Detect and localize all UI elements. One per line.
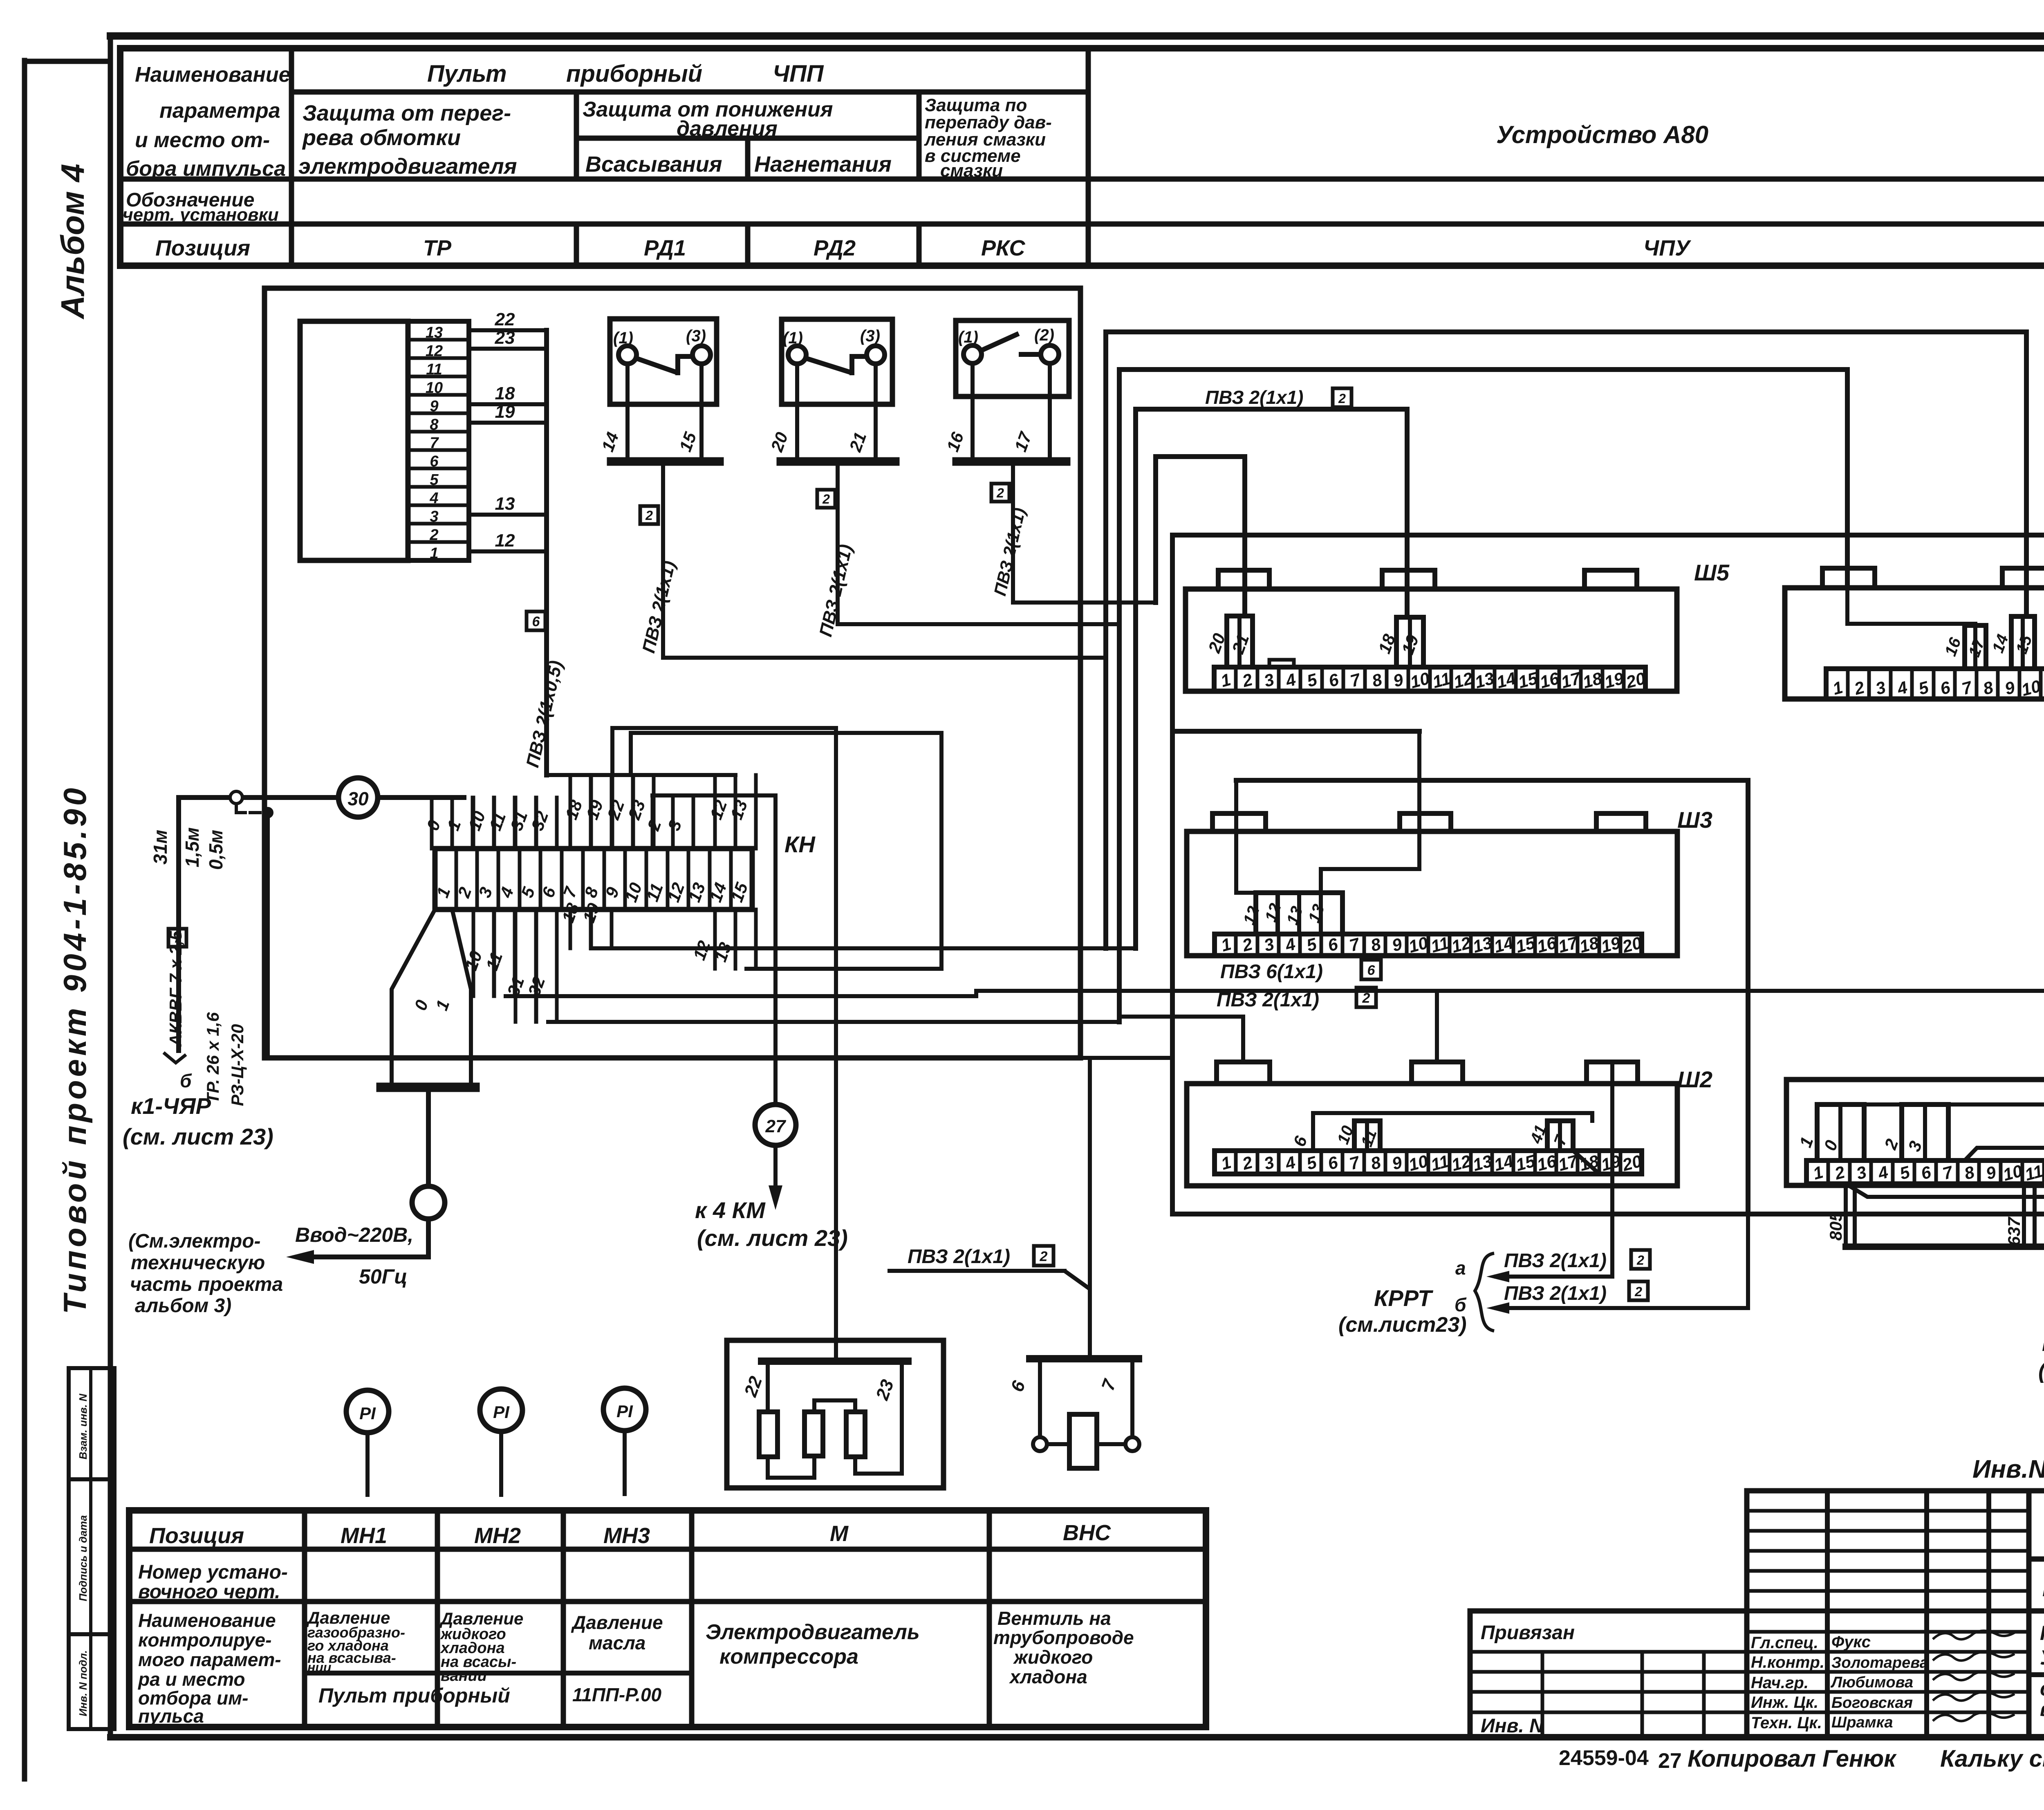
svg-text:16: 16 xyxy=(1941,635,1965,659)
manometer МН3 (PI) xyxy=(603,1388,646,1494)
svg-text:Инв. N: Инв. N xyxy=(1481,1715,1544,1737)
motor М windings box xyxy=(727,1340,944,1488)
rotated cable spec АКВВГ 7х2,5 [7] xyxy=(166,929,186,1047)
terminal strip Ш2 xyxy=(1187,1062,1677,1186)
svg-text:ПВЗ 2(1х1): ПВЗ 2(1х1) xyxy=(908,1246,1010,1268)
svg-text:Компрессорная станция 5КЦ-160А: Компрессорная станция 5КЦ-160АО xyxy=(2042,1575,2044,1601)
Ш1 floor bar xyxy=(1846,1243,2044,1250)
svg-text:2: 2 xyxy=(996,486,1004,500)
svg-text:Ввод~220В,: Ввод~220В, xyxy=(295,1223,413,1246)
svg-text:Компрессорная станция.: Компрессорная станция. xyxy=(2040,1622,2044,1644)
svg-text:6: 6 xyxy=(1326,1152,1340,1174)
left margin label: Типовой проект 904-1-85.90 xyxy=(57,785,93,1314)
svg-text:13: 13 xyxy=(1283,904,1307,927)
terminal strip Ш4 xyxy=(1785,568,2044,700)
svg-text:(см. лист 23): (см. лист 23) xyxy=(123,1124,273,1149)
svg-text:6: 6 xyxy=(1289,1133,1311,1149)
svg-text:6: 6 xyxy=(1007,1378,1029,1394)
svg-text:Инв. N подл.: Инв. N подл. xyxy=(77,1650,89,1716)
svg-text:7: 7 xyxy=(1960,677,1975,699)
Ш4 inner terminals 14/15 xyxy=(1989,588,2036,669)
svg-text:9: 9 xyxy=(2003,677,2017,699)
svg-text:10: 10 xyxy=(1407,1151,1430,1174)
svg-text:рева обмотки: рева обмотки xyxy=(302,125,461,150)
wire run y812 to Ш4 xyxy=(1106,332,2026,948)
РКС run right xyxy=(1013,600,1156,605)
svg-text:Альбом 4: Альбом 4 xyxy=(54,164,91,320)
svg-text:6: 6 xyxy=(1938,677,1952,699)
text (см. лист 20) труба 26х1.6 1,5м xyxy=(2038,1357,2044,1383)
svg-text:Гл.спец.: Гл.спец. xyxy=(1751,1634,1818,1652)
svg-text:16: 16 xyxy=(943,430,967,455)
svg-text:давления: давления xyxy=(677,117,778,141)
svg-text:637: 637 xyxy=(2004,1216,2024,1246)
svg-text:7: 7 xyxy=(1347,934,1362,955)
svg-text:2: 2 xyxy=(1240,934,1255,955)
Ш3 inner terminals 12 12 13 13 xyxy=(1240,893,1342,934)
svg-text:10: 10 xyxy=(1408,668,1432,692)
svg-text:бора импульса: бора импульса xyxy=(126,157,286,181)
svg-text:3: 3 xyxy=(1874,677,1888,698)
svg-text:6: 6 xyxy=(1327,670,1341,691)
stub columns above КН xyxy=(423,775,756,849)
svg-text:22: 22 xyxy=(740,1373,766,1400)
wire run y1117 to Ш5 xyxy=(1156,457,1245,616)
terminal strip Ш1 xyxy=(1786,1058,2044,1185)
svg-text:1: 1 xyxy=(1831,677,1845,698)
svg-text:31м: 31м xyxy=(150,830,171,865)
stub columns below КН xyxy=(461,901,756,1022)
horizontal bus from left strip cable xyxy=(547,773,735,777)
svg-text:1: 1 xyxy=(1795,1134,1817,1150)
svg-text:трубопроводе: трубопроводе xyxy=(993,1627,1134,1648)
bottom table xyxy=(129,1510,1206,1727)
svg-text:Ш3: Ш3 xyxy=(1677,807,1712,833)
svg-text:6: 6 xyxy=(1326,934,1340,955)
svg-text:Инв.N: Инв.N xyxy=(1972,1455,2044,1483)
svg-text:Устройство А80: Устройство А80 xyxy=(1496,121,1708,148)
svg-text:6: 6 xyxy=(532,614,540,629)
РД1/РД2 run to 12/13 xyxy=(663,656,1106,660)
Ш1 inner terminals 2/3 xyxy=(1880,1104,1948,1160)
svg-text:РЗ-Ц-Х-20: РЗ-Ц-Х-20 xyxy=(228,1024,247,1106)
svg-text:12: 12 xyxy=(706,797,731,822)
svg-text:12: 12 xyxy=(689,938,714,963)
title block right part xyxy=(2029,1512,2044,1738)
svg-text:Электродвигатель: Электродвигатель xyxy=(706,1620,920,1644)
svg-text:27: 27 xyxy=(765,1116,787,1136)
manometer МН2 (PI) xyxy=(480,1389,522,1495)
svg-text:МН2: МН2 xyxy=(474,1523,521,1548)
cable label ПВЗ 6(1х1) [6] xyxy=(1220,960,1381,983)
wire run y904 to Ш4 xyxy=(1119,370,1847,1022)
svg-text:ПВЗ 2(1х1): ПВЗ 2(1х1) xyxy=(639,559,679,655)
svg-text:Давление: Давление xyxy=(439,1609,523,1628)
svg-text:4: 4 xyxy=(1283,1152,1298,1174)
text Ввод~220В 50Гц xyxy=(295,1223,413,1288)
svg-text:23: 23 xyxy=(872,1377,898,1403)
svg-text:Пульт: Пульт xyxy=(427,60,507,87)
svg-text:ТР. 26 х 1,6: ТР. 26 х 1,6 xyxy=(203,1012,222,1104)
Ш5 small bump on cell row xyxy=(1269,660,1294,667)
svg-text:9: 9 xyxy=(1390,934,1404,955)
svg-text:0: 0 xyxy=(410,997,432,1013)
text Инв.N above title block xyxy=(1972,1455,2044,1483)
svg-text:Вщит 2 (3,4): Вщит 2 (3,4) xyxy=(2042,1331,2044,1356)
svg-text:PI: PI xyxy=(616,1402,633,1421)
svg-text:Шрамка: Шрамка xyxy=(1831,1714,1893,1731)
svg-text:(1): (1) xyxy=(958,328,978,346)
bracket and б xyxy=(164,1053,192,1091)
svg-text:ПВЗ 2(1х1): ПВЗ 2(1х1) xyxy=(1504,1250,1607,1272)
wire: left vertical to long middle bus xyxy=(176,797,181,1051)
wire loop y1309 around right side xyxy=(1172,535,2044,1214)
svg-text:вочного черт.: вочного черт. xyxy=(138,1581,280,1603)
Ш4 wire to terminals 16/17 xyxy=(1847,588,1975,624)
Ш2 inner terminals 10/11 xyxy=(1334,1121,1381,1151)
svg-text:3: 3 xyxy=(1854,1162,1869,1183)
svg-text:PI: PI xyxy=(493,1402,510,1422)
enclosure box ЧПП xyxy=(264,288,1080,1058)
svg-text:13: 13 xyxy=(1473,668,1496,692)
bottom table texts xyxy=(137,1521,1134,1727)
svg-text:15: 15 xyxy=(675,430,700,455)
svg-text:2: 2 xyxy=(1338,391,1346,406)
svg-text:3: 3 xyxy=(1904,1138,1925,1154)
svg-text:11: 11 xyxy=(1429,933,1451,957)
svg-text:0,5м: 0,5м xyxy=(205,830,226,870)
Ш1 drop wires 637 xyxy=(2004,1184,2035,1247)
wires from strip to bus ПВЗ 2(1х0,5) xyxy=(469,309,547,775)
terminal strip Ш3 xyxy=(1187,813,1677,957)
Ш2 inner wiring xyxy=(1289,1113,1592,1151)
svg-text:22: 22 xyxy=(603,797,628,822)
svg-text:31: 31 xyxy=(507,809,531,833)
svg-text:4: 4 xyxy=(1283,670,1298,691)
svg-text:КРРТ: КРРТ xyxy=(1374,1285,1434,1311)
svg-text:Наименование: Наименование xyxy=(138,1610,276,1631)
label ПВЗ 2(1х1) [2] for ВНС xyxy=(890,1246,1089,1288)
svg-text:13: 13 xyxy=(495,494,515,514)
svg-text:(см. лист 23): (см. лист 23) xyxy=(697,1225,848,1251)
svg-text:21: 21 xyxy=(845,430,870,455)
svg-text:12: 12 xyxy=(1262,901,1285,924)
svg-text:Нач.гр.: Нач.гр. xyxy=(1751,1674,1809,1692)
svg-text:техническую: техническую xyxy=(131,1252,265,1274)
left margin stamp cells xyxy=(69,1368,114,1729)
svg-text:5: 5 xyxy=(1304,1152,1319,1174)
svg-text:20: 20 xyxy=(767,430,791,455)
КН funnel to supply bar xyxy=(381,909,475,1087)
svg-text:жидкого: жидкого xyxy=(1013,1646,1093,1668)
svg-text:2: 2 xyxy=(1634,1284,1642,1299)
svg-text:8: 8 xyxy=(1369,1152,1383,1174)
svg-text:схема соединений: схема соединений xyxy=(2040,1677,2044,1700)
svg-text:2: 2 xyxy=(1362,990,1370,1006)
КРРТ lines a/б xyxy=(1486,1214,1748,1314)
svg-text:22: 22 xyxy=(495,309,515,329)
svg-text:11: 11 xyxy=(2023,1161,2044,1185)
svg-text:(См.электро-: (См.электро- xyxy=(128,1230,261,1252)
svg-text:6: 6 xyxy=(1367,963,1376,978)
svg-text:2: 2 xyxy=(1880,1136,1902,1152)
cable label ПВЗ 2(1х1) [2] xyxy=(1217,988,1376,1011)
svg-text:27: 27 xyxy=(1658,1749,1682,1773)
svg-text:Фукс: Фукс xyxy=(1831,1633,1871,1651)
svg-text:приборный: приборный xyxy=(566,60,702,87)
terminal strip (13 cells) xyxy=(300,321,469,562)
svg-text:17: 17 xyxy=(1011,429,1035,455)
svg-text:Нагнетания: Нагнетания xyxy=(754,152,892,177)
label Ш3 xyxy=(1677,807,1712,833)
svg-text:(2): (2) xyxy=(1034,326,1054,344)
svg-text:Взам. инв. N: Взам. инв. N xyxy=(77,1393,89,1459)
svg-text:1,5м: 1,5м xyxy=(182,827,203,867)
svg-text:1: 1 xyxy=(1219,934,1233,955)
svg-text:Установка осушки N1: Установка осушки N1 xyxy=(2040,1646,2044,1669)
svg-text:Копировал Генюк: Копировал Генюк xyxy=(1688,1745,1897,1772)
svg-text:3: 3 xyxy=(1262,670,1276,690)
svg-text:9: 9 xyxy=(1984,1162,1998,1183)
svg-text:1: 1 xyxy=(1219,1152,1233,1173)
svg-text:PI: PI xyxy=(359,1404,376,1423)
svg-text:8: 8 xyxy=(1370,670,1384,691)
svg-text:4: 4 xyxy=(1895,677,1910,699)
wire run y1001 to Ш5 xyxy=(1136,409,1407,948)
svg-text:1: 1 xyxy=(1219,670,1233,690)
svg-text:7: 7 xyxy=(1347,1152,1362,1174)
svg-text:2: 2 xyxy=(1852,677,1867,699)
КРРТ labels xyxy=(1338,1250,1650,1337)
svg-text:Любимова: Любимова xyxy=(1830,1674,1913,1691)
svg-text:М: М xyxy=(830,1521,849,1546)
svg-text:МН1: МН1 xyxy=(341,1523,387,1548)
svg-text:Вентиль на: Вентиль на xyxy=(997,1608,1111,1629)
bottom margin texts xyxy=(1559,1745,2044,1773)
svg-text:1: 1 xyxy=(432,997,453,1013)
wire band below КН xyxy=(506,948,2044,1062)
svg-text:6: 6 xyxy=(1919,1162,1933,1183)
dash-dot link with junction dot xyxy=(236,804,272,817)
svg-text:вании: вании xyxy=(441,1667,487,1685)
svg-text:(3): (3) xyxy=(860,327,880,345)
svg-text:Ш2: Ш2 xyxy=(1677,1066,1712,1092)
svg-text:электродвигателя: электродвигателя xyxy=(298,154,517,179)
svg-text:8: 8 xyxy=(1962,1162,1977,1183)
svg-text:(см. лист 20): (см. лист 20) xyxy=(2038,1359,2044,1383)
svg-text:Давление: Давление xyxy=(571,1612,663,1633)
label КН xyxy=(784,831,816,857)
text Вщит 2 (3,4) КВВГ 7х1 [5] 29м xyxy=(2042,1331,2044,1362)
header table texts xyxy=(123,60,1708,260)
svg-text:хладона: хладона xyxy=(1009,1666,1087,1687)
svg-text:ПВЗ 2(1х1): ПВЗ 2(1х1) xyxy=(1504,1283,1607,1304)
Ш1 inner long rail xyxy=(1817,1102,2044,1107)
wire 12/13 over-route xyxy=(631,733,941,969)
svg-text:Н.контр.: Н.контр. xyxy=(1751,1653,1824,1671)
terminal strip Ш5 xyxy=(1186,570,1677,692)
Ш1 cable loom lower xyxy=(1846,1184,2044,1197)
wire: power feed down from junction xyxy=(266,813,270,1058)
svg-text:нии: нии xyxy=(307,1660,331,1675)
wire РД1 down, label ПВЗ 2(1х1) [2] xyxy=(639,461,679,658)
label Ш2 xyxy=(1677,1066,1712,1092)
svg-text:РД1: РД1 xyxy=(644,236,686,260)
rotated cable spec ТР.26х1,6 xyxy=(203,1012,222,1104)
svg-text:МН3: МН3 xyxy=(603,1523,650,1548)
svg-text:(см.лист23): (см.лист23) xyxy=(1338,1313,1467,1337)
Ш1 cable loom upper xyxy=(1965,1148,2044,1160)
svg-text:805: 805 xyxy=(1826,1212,1845,1241)
Ш3 staircase wires xyxy=(1172,731,1419,934)
svg-text:Пульт приборный: Пульт приборный xyxy=(318,1684,510,1707)
svg-text:3: 3 xyxy=(1262,934,1276,955)
svg-text:ЧПП: ЧПП xyxy=(773,60,824,87)
wire РД2 down, label ПВЗ 2(1х1) [2] xyxy=(816,461,1119,638)
svg-text:19: 19 xyxy=(582,797,607,822)
svg-text:Ш5: Ш5 xyxy=(1694,560,1730,585)
svg-text:2: 2 xyxy=(1240,670,1255,691)
svg-text:к 4 КМ: к 4 КМ xyxy=(695,1197,766,1223)
svg-text:2: 2 xyxy=(645,508,653,523)
svg-text:Позиция: Позиция xyxy=(155,236,250,260)
svg-text:9: 9 xyxy=(1391,670,1405,691)
svg-text:13: 13 xyxy=(1305,902,1328,925)
wire to motor М xyxy=(612,728,836,1361)
svg-text:32: 32 xyxy=(527,809,552,833)
svg-text:ПВЗ 2(1х1): ПВЗ 2(1х1) xyxy=(1205,387,1303,408)
header table xyxy=(120,48,2044,266)
pressure-difference switch contact РКС xyxy=(943,320,1069,461)
title block texts xyxy=(1481,1622,2015,1737)
svg-text:внешних проводок.: внешних проводок. xyxy=(2040,1698,2044,1720)
svg-text:24559-04: 24559-04 xyxy=(1559,1746,1649,1770)
svg-text:ПВЗ 2(1х1): ПВЗ 2(1х1) xyxy=(1217,989,1319,1011)
svg-text:мого парамет-: мого парамет- xyxy=(138,1649,281,1670)
svg-text:Номер устано-: Номер устано- xyxy=(138,1561,288,1583)
svg-text:21: 21 xyxy=(1228,632,1253,656)
svg-text:1: 1 xyxy=(1811,1162,1825,1183)
svg-text:1: 1 xyxy=(430,545,438,562)
svg-text:19: 19 xyxy=(495,402,515,422)
manometer МН1 (PI) xyxy=(346,1390,389,1495)
svg-text:12: 12 xyxy=(495,531,515,551)
svg-text:контролируе-: контролируе- xyxy=(138,1629,271,1651)
svg-text:РД2: РД2 xyxy=(814,236,856,260)
svg-text:2: 2 xyxy=(1636,1253,1644,1268)
Ш5 inner terminals 18/19 xyxy=(1374,617,1423,667)
title block xyxy=(1470,1491,2044,1737)
svg-text:8: 8 xyxy=(1369,934,1383,955)
svg-text:10: 10 xyxy=(464,809,489,833)
svg-text:смазки: смазки xyxy=(940,161,1003,181)
Ш1 inner terminals 1/0 xyxy=(1795,1104,1864,1160)
svg-text:2: 2 xyxy=(1832,1162,1847,1183)
svg-text:2: 2 xyxy=(1240,1152,1255,1174)
svg-text:альбом 3): альбом 3) xyxy=(135,1295,231,1317)
svg-text:черт. установки: черт. установки xyxy=(123,205,279,225)
svg-text:а: а xyxy=(1455,1257,1466,1279)
svg-text:Позиция: Позиция xyxy=(149,1523,244,1548)
Ш2 wire bump3 to line a xyxy=(1610,1062,1614,1277)
svg-text:11: 11 xyxy=(1358,1127,1381,1149)
svg-text:13: 13 xyxy=(726,797,751,822)
svg-text:11ПП-Р.00: 11ПП-Р.00 xyxy=(572,1684,662,1705)
svg-text:ЧПУ: ЧПУ xyxy=(1643,236,1691,260)
svg-text:5: 5 xyxy=(1898,1162,1912,1183)
svg-text:14: 14 xyxy=(598,430,622,454)
supply lamp circle xyxy=(286,1091,445,1264)
svg-text:4: 4 xyxy=(1283,934,1298,955)
svg-text:Боговская: Боговская xyxy=(1831,1694,1913,1711)
enclosure around Ш3/Ш2 xyxy=(1236,780,1748,1214)
rotated cable spec РЗ-Ц-Х-20 xyxy=(228,1024,247,1106)
svg-text:11: 11 xyxy=(1430,669,1452,692)
svg-text:Золотарева: Золотарева xyxy=(1831,1654,1928,1671)
svg-text:Наименование: Наименование xyxy=(135,63,291,87)
Ш1 drop wires 805 xyxy=(1826,1184,1855,1247)
svg-text:Инж. Цк.: Инж. Цк. xyxy=(1751,1694,1818,1711)
svg-text:8: 8 xyxy=(1981,677,1995,699)
svg-text:компрессора: компрессора xyxy=(719,1645,858,1669)
svg-text:Всасывания: Всасывания xyxy=(585,152,722,177)
svg-text:б: б xyxy=(1455,1294,1467,1315)
svg-text:Техн. Цк.: Техн. Цк. xyxy=(1751,1714,1822,1732)
svg-text:5: 5 xyxy=(1304,934,1319,955)
pressure switch contact РД2 xyxy=(767,319,895,461)
label ПВЗ 2(1х1) 2 on run xyxy=(1205,387,1351,408)
svg-text:2: 2 xyxy=(822,492,830,506)
svg-text:РКС: РКС xyxy=(981,236,1026,260)
svg-text:2: 2 xyxy=(1040,1249,1048,1264)
svg-text:Кальку сверил Шрамка: Кальку сверил Шрамка xyxy=(1940,1745,2044,1772)
svg-text:ВНС: ВНС xyxy=(1063,1521,1111,1545)
svg-text:50Гц: 50Гц xyxy=(359,1265,408,1288)
node 30 circle on supply line xyxy=(179,778,464,817)
svg-text:7: 7 xyxy=(1098,1376,1120,1393)
Ш5 inner terminals 20/21 xyxy=(1204,570,1253,667)
svg-text:ПВЗ 6(1х1): ПВЗ 6(1х1) xyxy=(1220,961,1323,983)
Ш2 inner terminals 41/7 xyxy=(1527,1121,1598,1172)
svg-text:(3): (3) xyxy=(686,327,706,345)
svg-text:Типовой проект 904-1-85.9: Типовой проект 904-1-85.90 xyxy=(57,785,93,1314)
svg-text:5: 5 xyxy=(1305,670,1319,691)
svg-text:3: 3 xyxy=(1262,1152,1276,1173)
svg-text:ПВЗ 2(1х1): ПВЗ 2(1х1) xyxy=(990,506,1029,598)
svg-text:11: 11 xyxy=(485,810,509,833)
svg-text:Привязан: Привязан xyxy=(1481,1622,1575,1644)
svg-text:23: 23 xyxy=(624,797,649,822)
svg-text:ра и место: ра и место xyxy=(137,1669,245,1690)
svg-text:б: б xyxy=(180,1070,192,1091)
left margin label: Альбом 4 xyxy=(54,164,91,320)
svg-text:30: 30 xyxy=(347,788,369,809)
svg-text:19: 19 xyxy=(1398,632,1422,657)
svg-text:7: 7 xyxy=(1941,1162,1955,1183)
svg-text:пульса: пульса xyxy=(138,1705,204,1727)
svg-text:Подпись и дата: Подпись и дата xyxy=(77,1515,89,1602)
node 27 circle branch к 4 КМ xyxy=(652,795,848,1251)
svg-text:ПВЗ 2(1х0,5): ПВЗ 2(1х0,5) xyxy=(522,659,567,769)
label Ш5 xyxy=(1694,560,1730,585)
svg-text:23: 23 xyxy=(495,328,515,348)
svg-text:параметра: параметра xyxy=(159,99,280,123)
svg-text:14: 14 xyxy=(1989,632,2012,655)
Ш4 inner terminals 16/17 xyxy=(1941,625,1988,669)
svg-text:ТР: ТР xyxy=(423,236,452,260)
svg-text:9: 9 xyxy=(1390,1152,1404,1174)
svg-text:(1): (1) xyxy=(783,329,803,347)
